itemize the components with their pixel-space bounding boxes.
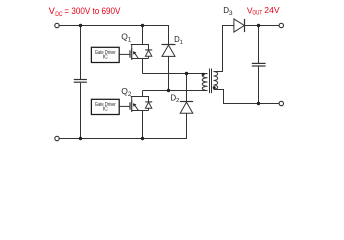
- svg-text:24V: 24V: [264, 5, 280, 15]
- svg-text:OUT: OUT: [252, 11, 262, 17]
- svg-text:IC: IC: [103, 106, 108, 112]
- svg-text:= 300V to 690V: = 300V to 690V: [64, 6, 121, 16]
- svg-text:IC: IC: [103, 54, 108, 60]
- svg-text:DC: DC: [55, 11, 63, 18]
